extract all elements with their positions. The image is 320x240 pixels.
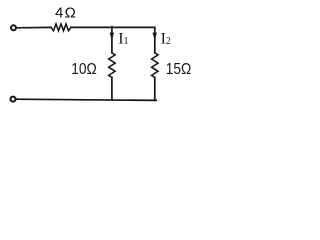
wire branch I2 vertical (top-right corner down to 15Ω) (154, 27, 156, 52)
wire bottom lead of 10Ω to bottom wire (111, 78, 113, 101)
node A junction (top of 10Ω branch) (111, 27, 113, 29)
resistor R2 10Ω (vertical zigzag) (109, 53, 115, 78)
svg-text:I1: I1 (118, 30, 128, 47)
current arrow I1 (110, 33, 114, 40)
current arrow I2 (153, 33, 157, 40)
resistor R1 4Ω (horizontal zigzag) (51, 24, 71, 31)
wire bottom (bottom terminal to 15Ω bottom) (16, 99, 156, 100)
svg-text:15Ω: 15Ω (166, 61, 192, 78)
terminal top-left (11, 25, 16, 30)
resistor R3 15Ω (vertical zigzag) (152, 53, 158, 78)
terminal bottom-left (11, 97, 16, 102)
wire branch I1 vertical (node A down to 10Ω) (111, 27, 113, 52)
svg-text:10Ω: 10Ω (71, 61, 97, 78)
svg-text:4Ω: 4Ω (55, 4, 76, 21)
wire from resistor R1 to node B (top-right corner) (71, 26, 155, 28)
svg-text:I2: I2 (161, 30, 171, 47)
wire bottom lead of 15Ω to bottom wire (154, 78, 156, 101)
wire from top terminal to resistor R1 (16, 26, 51, 28)
